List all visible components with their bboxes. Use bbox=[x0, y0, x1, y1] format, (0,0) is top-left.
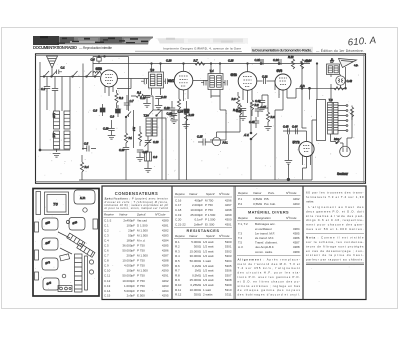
wire coil feed bbox=[61, 77, 63, 112]
svg-text:la Documentation du Sonomètre-: la Documentation du Sonomètre-Radio. bbox=[252, 49, 312, 53]
switch S8 bbox=[156, 110, 162, 116]
svg-text:C.1: C.1 bbox=[61, 66, 66, 70]
resistor R7 bbox=[194, 59, 206, 66]
svg-text:C.21: C.21 bbox=[255, 58, 261, 62]
svg-text:sur le schéma, les condensa-: sur le schéma, les condensa- bbox=[306, 240, 364, 244]
wire coil common bbox=[40, 149, 70, 152]
svg-text:C.42: C.42 bbox=[347, 79, 353, 83]
wire grid return bbox=[117, 79, 131, 89]
antenna bbox=[47, 56, 58, 77]
chassis power transformer block bbox=[45, 192, 69, 215]
capacitor C10 bbox=[140, 96, 150, 104]
wire top subsidiary bbox=[93, 56, 129, 58]
chassis tube socket 6E8 bbox=[42, 218, 58, 230]
ground c12 bbox=[155, 106, 163, 110]
oscillator coil L12 bbox=[64, 111, 70, 129]
ground coil bbox=[53, 154, 61, 158]
tube V4 6V6 bbox=[275, 69, 291, 90]
ground c27 bbox=[136, 158, 144, 162]
chassis side bracket 1 bbox=[35, 222, 39, 232]
chassis terminal strip bbox=[58, 286, 72, 292]
svg-text:R.6: R.6 bbox=[271, 115, 276, 119]
chassis tube socket 6M7 bbox=[42, 238, 58, 250]
node dot T3a bbox=[151, 63, 153, 65]
node dot ground bus bbox=[287, 178, 290, 181]
resistor R3 bbox=[132, 126, 142, 146]
capacitor C21 top bbox=[255, 58, 264, 65]
ground c10 bbox=[143, 104, 151, 108]
capacitor C24 top bbox=[273, 58, 281, 65]
svg-text:C.27: C.27 bbox=[143, 151, 149, 154]
capacitor C7 bbox=[124, 95, 134, 110]
node dot bus1 bbox=[260, 63, 262, 65]
ground c19 bbox=[108, 136, 116, 140]
capacitor C9 bbox=[110, 105, 120, 119]
svg-text:C.10: C.10 bbox=[140, 96, 146, 100]
node dot T4b bbox=[219, 63, 221, 65]
wire antenna left drop bbox=[39, 62, 41, 150]
chassis wiring line 1 bbox=[58, 232, 70, 238]
svg-text:C.2: C.2 bbox=[41, 87, 46, 91]
wire avc bus bbox=[162, 109, 190, 111]
chassis grommet bbox=[83, 208, 87, 212]
svg-text:P.U.: P.U. bbox=[223, 141, 229, 145]
tube V3 pins bbox=[243, 89, 252, 103]
bottom return bus bbox=[79, 179, 312, 181]
svg-text:C.19: C.19 bbox=[103, 127, 109, 131]
IF transformer T3 bbox=[149, 68, 164, 88]
node dot A bbox=[39, 149, 41, 151]
resistor R9 bbox=[250, 100, 259, 116]
chassis grommet 2 bbox=[62, 274, 66, 278]
resistor R15 bbox=[330, 87, 346, 90]
wire ht to rectifier bbox=[302, 100, 307, 129]
svg-text:mes sur 59 et 1.000 mètres.: mes sur 59 et 1.000 mètres. bbox=[306, 227, 364, 231]
tube V6 top lead bbox=[306, 131, 308, 141]
capacitor C26 bbox=[119, 148, 129, 181]
svg-text:P.1: P.1 bbox=[129, 137, 133, 140]
chassis side bracket right bbox=[93, 219, 98, 229]
svg-text:deux gammes P.O. et G.O. doit: deux gammes P.O. et G.O. doit bbox=[306, 209, 364, 213]
switch AV bbox=[243, 103, 257, 140]
svg-text:C.25: C.25 bbox=[197, 135, 203, 139]
svg-text:RESISTANCES: RESISTANCES bbox=[187, 228, 220, 233]
svg-text:C.40: C.40 bbox=[249, 120, 255, 124]
ground r10 bbox=[182, 125, 190, 129]
T4 trimmer right bbox=[223, 80, 227, 86]
capacitor C16 bbox=[236, 109, 246, 117]
svg-text:C.9: C.9 bbox=[110, 115, 115, 119]
wire plate V1 bbox=[117, 78, 148, 80]
chassis wiring line 2 bbox=[60, 248, 72, 254]
svg-text:R.8: R.8 bbox=[232, 97, 237, 101]
svg-text:Nota : Comme il est visible: Nota : Comme il est visible bbox=[306, 236, 364, 240]
capacitor C19 bbox=[103, 120, 115, 135]
mains plug Secteur bbox=[337, 111, 352, 177]
svg-text:formateurs T.3 et T.4 sur 1,30: formateurs T.3 et T.4 sur 1,30 bbox=[306, 195, 364, 199]
divider col3/col4 bbox=[302, 186, 304, 300]
tuning coil L10 bbox=[52, 111, 60, 129]
capacitor C17 bbox=[255, 104, 267, 117]
svg-text:DOCUMENTATION RADIO: DOCUMENTATION RADIO bbox=[33, 45, 78, 50]
wire vol col2 bbox=[133, 110, 135, 148]
svg-text:6M7: 6M7 bbox=[168, 79, 175, 83]
svg-text:R.2: R.2 bbox=[119, 96, 124, 100]
wire T3 bottom leads bbox=[152, 88, 161, 95]
excitation coil circle bbox=[336, 76, 353, 85]
capacitor C38 bbox=[255, 95, 265, 107]
white blob scan artifact right bbox=[242, 44, 251, 56]
wire T3 top leads bbox=[152, 64, 161, 73]
svg-text:ment pour chacune des gam-: ment pour chacune des gam- bbox=[306, 223, 364, 227]
capacitor C40 bbox=[249, 117, 259, 128]
loudspeaker cone bbox=[331, 58, 359, 68]
svg-text:5Y3: 5Y3 bbox=[293, 140, 301, 145]
capacitor C22 coupling bbox=[262, 75, 275, 85]
svg-text:et G.O. en litres chacun des p: et G.O. en litres chacun des po- bbox=[238, 279, 301, 283]
svg-text:C.17: C.17 bbox=[261, 105, 267, 109]
wire av col bbox=[250, 139, 252, 180]
tube V2 top lead bbox=[183, 64, 185, 72]
wire c43 drop bbox=[287, 134, 289, 160]
svg-text:Secteur: Secteur bbox=[337, 172, 349, 176]
ground c16 bbox=[239, 117, 247, 121]
resistor R10 bbox=[184, 110, 194, 124]
wire left column long2 bbox=[92, 71, 94, 77]
resistor R12 bbox=[288, 55, 295, 69]
header middle underline bbox=[135, 50, 244, 52]
svg-text:et pour la micro, sinon, indiq: et pour la micro, sinon, indiqué sur l'u… bbox=[105, 206, 169, 210]
capacitor C18 bbox=[167, 110, 178, 120]
chassis knob 2 bbox=[89, 270, 93, 274]
node dot ht2 bbox=[309, 87, 311, 89]
svg-text:sistant de la prise du haut-: sistant de la prise du haut- bbox=[306, 253, 364, 257]
switch Inter bbox=[331, 134, 342, 144]
svg-text:Alignement : Après remplace-: Alignement : Après remplace- bbox=[238, 257, 301, 261]
svg-text:R.1: R.1 bbox=[137, 91, 142, 95]
svg-text:R.9: R.9 bbox=[255, 103, 260, 107]
svg-text:C.12: C.12 bbox=[161, 95, 167, 99]
svg-text:R.3: R.3 bbox=[132, 127, 135, 132]
svg-text:R.14: R.14 bbox=[306, 59, 312, 63]
T3 trimmer left bbox=[141, 79, 146, 85]
svg-text:dings C.6 et C.16, respective-: dings C.6 et C.16, respective- bbox=[306, 218, 364, 222]
header bar speckles bbox=[57, 38, 148, 44]
pick-up jack PU bbox=[212, 132, 240, 146]
capacitor C44 bbox=[292, 125, 298, 135]
tube V6 5Y3 bbox=[293, 140, 315, 157]
electrolytic wire bbox=[283, 130, 307, 132]
capacitor C14 bbox=[178, 101, 190, 180]
svg-text:R.11: R.11 bbox=[233, 108, 239, 112]
T4 trimmer left bbox=[201, 80, 206, 86]
wire T4 top leads bbox=[211, 64, 220, 74]
svg-text:R.10: R.10 bbox=[189, 113, 195, 117]
switch S4 bbox=[86, 71, 92, 77]
switch S3 bbox=[72, 71, 78, 77]
svg-text:C.23: C.23 bbox=[166, 59, 172, 63]
svg-text:C.7: C.7 bbox=[130, 99, 135, 103]
schematic outer border bbox=[36, 54, 366, 184]
svg-text:Inter.: Inter. bbox=[334, 138, 340, 141]
tube V2 6M7 bbox=[168, 71, 193, 90]
wire c14 link bbox=[153, 109, 162, 111]
capacitor C25 bbox=[197, 135, 212, 146]
wire V2 plate bbox=[193, 80, 208, 82]
ground c43 bbox=[285, 161, 293, 165]
wire ht drops bbox=[302, 66, 310, 100]
svg-text:CONDENSATEURS: CONDENSATEURS bbox=[115, 191, 159, 196]
chassis grommet 3 bbox=[66, 220, 69, 223]
T3 trimmer right bbox=[164, 79, 168, 85]
svg-text:C.20: C.20 bbox=[153, 140, 159, 144]
oscillator coil L13 bbox=[64, 131, 70, 149]
wire osc col2 bbox=[157, 118, 166, 180]
wire speaker field to T6 bbox=[330, 88, 332, 102]
switch S2 bbox=[51, 71, 57, 77]
node dot top1 bbox=[98, 56, 100, 58]
svg-text:sitions extrêmes ; réglage en: sitions extrêmes ; réglage en bas bbox=[238, 284, 301, 288]
svg-text:des circuits H.F. pour les sta: des circuits H.F. pour les sta- bbox=[238, 271, 301, 275]
node dot V2 bbox=[183, 63, 185, 65]
wire j-drop v3 bbox=[210, 110, 226, 140]
wire coil feed 2 bbox=[69, 77, 71, 112]
node dot ht1 bbox=[301, 87, 303, 89]
svg-text:mètre.: mètre. bbox=[306, 199, 314, 203]
wire v4 screen bbox=[287, 88, 296, 98]
svg-text:— Édition du 1er Décembre.: — Édition du 1er Décembre. bbox=[316, 48, 364, 53]
svg-text:R.7: R.7 bbox=[194, 59, 199, 63]
capacitor C3 bbox=[52, 89, 58, 112]
svg-text:tions P.O. avec les gammes P.O: tions P.O. avec les gammes P.O. bbox=[238, 275, 301, 279]
chassis rail left bbox=[36, 192, 41, 215]
capacitor C8 bbox=[93, 104, 105, 116]
ground osc bbox=[144, 169, 152, 173]
switch S6 bbox=[125, 112, 131, 128]
svg-text:être réalisé à l'aide des pad-: être réalisé à l'aide des pad- bbox=[306, 214, 364, 218]
svg-text:C.28: C.28 bbox=[228, 59, 234, 63]
ground r6 bbox=[264, 127, 272, 131]
ground c13 bbox=[168, 115, 176, 119]
chassis knob 1 bbox=[89, 260, 93, 264]
svg-text:de chaque gamme des noyaux: de chaque gamme des noyaux bbox=[238, 288, 301, 292]
resistor R1 bbox=[131, 91, 153, 111]
T6 secondary taps bbox=[338, 105, 348, 132]
chassis small part 1 bbox=[60, 254, 70, 261]
capacitor C2 bbox=[41, 87, 50, 111]
white blob scan artifact left bbox=[148, 38, 160, 54]
svg-text:L.11: L.11 bbox=[52, 133, 55, 138]
capacitor C27 bbox=[137, 150, 149, 157]
wire v4 cathode col bbox=[275, 101, 283, 180]
svg-text:MATÉRIEL DIVERS: MATÉRIEL DIVERS bbox=[248, 209, 289, 214]
trimmer C20 bbox=[145, 136, 160, 147]
tube V1 6E8 bbox=[96, 67, 118, 87]
svg-text:T6: T6 bbox=[53, 202, 58, 207]
wire mid drops bbox=[211, 96, 220, 110]
capacitor C4 bbox=[91, 58, 102, 64]
ground c18 bbox=[170, 120, 178, 124]
svg-text:C.38: C.38 bbox=[255, 99, 261, 103]
wire switch drop 2 bbox=[54, 77, 56, 89]
wire left column long1 bbox=[82, 64, 84, 151]
chassis tube socket 6H8 bbox=[69, 218, 85, 231]
tube V3 6H8 bbox=[231, 72, 257, 91]
svg-text:des bobinages d'accord et osci: des bobinages d'accord et oscil. bbox=[238, 293, 301, 297]
wire hf top bus bbox=[93, 63, 310, 65]
tube V2 pins bbox=[179, 89, 188, 101]
wire plug to switch bbox=[337, 142, 344, 144]
svg-text:— Reproduction interdite: — Reproduction interdite bbox=[79, 46, 112, 50]
wire grid v4 bbox=[274, 81, 276, 90]
header dark bar right with title bbox=[251, 47, 313, 53]
svg-text:6V6: 6V6 bbox=[277, 69, 283, 73]
svg-text:D: D bbox=[331, 58, 333, 62]
tube V3 top lead bbox=[247, 64, 249, 72]
power transformer T6 bbox=[328, 98, 339, 134]
svg-text:60 par les trousses des trans-: 60 par les trousses des trans- bbox=[306, 191, 364, 195]
node dot psu bbox=[316, 63, 318, 65]
wire v1 col bbox=[128, 57, 130, 112]
resistor R2 bbox=[115, 90, 124, 108]
svg-text:6E8: 6E8 bbox=[96, 67, 102, 71]
padding capacitor C5 bbox=[82, 142, 96, 152]
scan speckles bbox=[35, 58, 359, 297]
switch S7 bbox=[147, 110, 153, 116]
wire t6 frame link bbox=[312, 120, 317, 180]
capacitor C12 bbox=[155, 95, 167, 105]
tables outer box bbox=[102, 186, 366, 300]
resistor R16 bbox=[350, 106, 353, 121]
wire psu loop frame bbox=[317, 100, 326, 141]
svg-text:C.44: C.44 bbox=[292, 125, 298, 129]
svg-text:C.22: C.22 bbox=[262, 75, 268, 79]
chassis gang capacitor bbox=[75, 254, 83, 292]
svg-text:RepèreDésignationNºCode: RepèreDésignationNºCode bbox=[238, 216, 297, 220]
chassis layout box bbox=[33, 189, 99, 297]
padding capacitor C6 bbox=[145, 147, 158, 168]
tube V6 pins bbox=[303, 155, 311, 168]
svg-text:T.4 sur 455 kc/s, l'alignement: T.4 sur 455 kc/s, l'alignement bbox=[238, 266, 301, 270]
IF transformer T4 bbox=[208, 69, 223, 90]
schematic inner border line top bbox=[36, 54, 366, 56]
HT rail bbox=[296, 87, 345, 89]
trimmer capacitor C1 bbox=[57, 66, 66, 75]
wire c43 to bus bbox=[287, 165, 289, 180]
svg-text:R.4: R.4 bbox=[85, 165, 90, 169]
chassis tube socket 6V6 bbox=[43, 278, 59, 290]
svg-text:T.1, T.2Bobinages acc.: T.1, T.2Bobinages acc. bbox=[238, 222, 276, 226]
header mottled bar middle faded bbox=[153, 38, 248, 44]
tube V4 pins bbox=[279, 89, 287, 101]
switch S5 bbox=[94, 71, 100, 77]
chassis side bracket 3 bbox=[35, 272, 39, 280]
wire V3 plate bbox=[257, 80, 263, 82]
chassis IF can T4 diagonal bbox=[77, 243, 95, 257]
svg-text:A.V.: A.V. bbox=[243, 133, 250, 137]
wire osc col1 bbox=[161, 110, 163, 180]
divider col1/col2 bbox=[171, 186, 173, 300]
chassis dial bar bbox=[85, 256, 88, 290]
svg-text:C.6: C.6 bbox=[153, 155, 158, 159]
svg-text:e.p.: e.p. bbox=[354, 64, 359, 67]
wire switch drop 1 bbox=[46, 77, 48, 87]
svg-text:Imprimerie Georges GIRARD, 4,: Imprimerie Georges GIRARD, 4, avenue de … bbox=[163, 47, 241, 51]
oscillator transformer T2 bbox=[144, 114, 158, 137]
divider col2/col3 bbox=[233, 186, 235, 300]
svg-text:C.26: C.26 bbox=[119, 149, 125, 152]
resistor R5 bbox=[177, 99, 180, 180]
chassis IF can T3 diagonal bbox=[67, 233, 85, 247]
svg-text:L.10: L.10 bbox=[52, 113, 55, 118]
svg-text:en cas de désamorçage ; con-: en cas de désamorçage ; con- bbox=[306, 249, 364, 253]
wire speaker drops bbox=[331, 67, 346, 88]
schematic inner border line bottom bbox=[36, 181, 366, 183]
capacitor C13 bbox=[164, 101, 175, 115]
chassis side bracket 2 bbox=[35, 250, 39, 260]
switch S1 bbox=[43, 71, 49, 77]
resistor R11 bbox=[233, 103, 242, 132]
wave-band switch bus bbox=[40, 76, 100, 78]
node dot V3 bbox=[247, 63, 249, 65]
node dot bus2 bbox=[278, 63, 280, 65]
svg-text:parleur par rapport au châssis: parleur par rapport au châssis. bbox=[306, 258, 364, 262]
header mottled bar left bbox=[33, 36, 153, 45]
resistor R4 bbox=[80, 155, 89, 180]
node dot T3b bbox=[160, 63, 162, 65]
svg-text:C.43: C.43 bbox=[283, 125, 289, 129]
node dot T4a bbox=[210, 63, 212, 65]
svg-text:C.8: C.8 bbox=[93, 109, 98, 113]
svg-text:RepèreValeurPots.NºCode: RepèreValeurPots.NºCode bbox=[238, 191, 297, 195]
resistor R13 bbox=[300, 59, 310, 69]
wire v6 to bus bbox=[303, 168, 307, 180]
resistor R8 bbox=[232, 92, 240, 112]
svg-text:R.12: R.12 bbox=[288, 55, 294, 59]
resistor R6 bbox=[266, 108, 275, 126]
capacitor C43 bbox=[283, 125, 289, 135]
hf choke bbox=[93, 57, 102, 76]
svg-text:teurs de filtrage sont protégé: teurs de filtrage sont protégés bbox=[306, 244, 364, 248]
chassis speaker cutout bbox=[74, 190, 95, 204]
svg-text:C.5: C.5 bbox=[84, 142, 89, 146]
ground c38 bbox=[258, 108, 266, 112]
schematic inner border line right bbox=[363, 54, 365, 184]
output transformer T7 bbox=[327, 60, 340, 75]
svg-text:H.P.: H.P. bbox=[80, 196, 86, 200]
svg-text:T.4: T.4 bbox=[210, 69, 214, 73]
node dot top2 bbox=[104, 56, 106, 58]
wire T4 bottom leads bbox=[211, 90, 220, 99]
svg-text:6H8: 6H8 bbox=[231, 73, 237, 77]
chassis tube socket 6H8bis bbox=[42, 258, 58, 270]
svg-text:L'alignement au haut des: L'alignement au haut des bbox=[309, 205, 365, 209]
svg-text:C.18: C.18 bbox=[167, 112, 173, 116]
wire bus to psu frame bbox=[316, 64, 318, 100]
svg-text:C.24: C.24 bbox=[273, 58, 279, 62]
tube V1 pins bbox=[105, 86, 113, 96]
node dot bus3 bbox=[301, 63, 303, 65]
svg-text:T.3: T.3 bbox=[150, 68, 154, 72]
svg-text:ment de l'accord des M.F. T.3: ment de l'accord des M.F. T.3 et bbox=[238, 262, 301, 266]
volume pot P1 bbox=[124, 127, 132, 147]
tuning coil L11 bbox=[52, 131, 60, 149]
wire r6 top bbox=[262, 95, 268, 108]
